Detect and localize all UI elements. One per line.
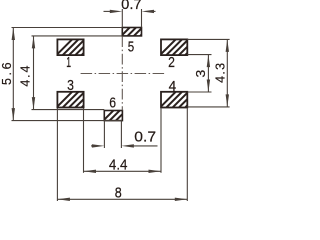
- pad 6: [101, 109, 140, 123]
- dim 4.3 right: dimension line with arrows: [226, 39, 229, 107]
- horizontal centerline: [81, 73, 166, 75]
- svg-text:4.4: 4.4: [109, 157, 128, 173]
- svg-text:4.3: 4.3: [213, 63, 227, 83]
- dim 5.6 left: extension line top (pad5 top edge): [12, 27, 123, 29]
- dim 3 right: extension line bottom (pad4 top edge): [187, 91, 211, 93]
- dim 0.7 bottom: dimension line with outside arrows: [91, 144, 158, 147]
- svg-text:1: 1: [66, 54, 71, 71]
- pad 4: [158, 90, 222, 110]
- dim 4.4 left: dimension line with arrows: [32, 36, 35, 110]
- dim 0.7 top: dimension line with outside arrows: [104, 10, 156, 13]
- pad 4 label "4": [169, 78, 177, 95]
- dim 8 bottom: extension line left (pads 1/3 left edge): [56, 109, 58, 202]
- dim 5.6 left: extension line bottom (pad6 bottom edge): [12, 120, 123, 122]
- dim 5.6 left: dimension line with arrows: [12, 28, 15, 121]
- svg-text:3: 3: [67, 77, 74, 94]
- dim 0.7 top: text: [121, 0, 142, 13]
- dim 0.7 bottom: text: [134, 129, 156, 146]
- pad 3: [54, 90, 118, 110]
- dim 8 bottom: dimension line with arrows: [57, 198, 187, 201]
- dim 3 right: extension line top (pad2 bottom edge): [187, 54, 211, 56]
- dim 8 bottom: extension line right (pads 2/4 right edge): [186, 109, 188, 202]
- svg-text:2: 2: [168, 54, 175, 71]
- pad 6 label "6": [109, 94, 116, 111]
- dim 4.3 right: extension line bottom (pad4 bottom edge): [187, 106, 229, 108]
- svg-text:5: 5: [128, 38, 134, 55]
- svg-text:4: 4: [169, 78, 177, 95]
- pad 2: [158, 37, 222, 57]
- dim 4.3 right: text (rotated): [213, 63, 227, 83]
- pad 1: [54, 37, 118, 57]
- pad 5: [119, 26, 157, 38]
- dim 3 right: text (rotated): [193, 70, 208, 78]
- dim 4.4 bottom: extension line right (pads 2/4 left edge): [160, 109, 162, 173]
- dim 0.7 top: extension lines from pad 5 edges: [122, 9, 141, 28]
- pad 3 label "3": [67, 77, 74, 94]
- dim 4.3 right: extension line top (pad2 top edge): [187, 38, 229, 40]
- dim 4.4 left: text (rotated): [19, 66, 33, 87]
- dim 4.4 bottom: dimension line with arrows: [84, 170, 162, 173]
- svg-text:8: 8: [115, 185, 122, 202]
- dim 5.6 left: text (rotated): [0, 62, 14, 85]
- svg-text:5.6: 5.6: [0, 62, 14, 85]
- svg-text:3: 3: [193, 70, 208, 78]
- dim 8 bottom: text: [115, 185, 122, 202]
- svg-text:4.4: 4.4: [19, 66, 33, 87]
- svg-text:6: 6: [109, 94, 116, 111]
- dim 4.4 bottom: extension line left (pads 1/3 right edge): [83, 109, 85, 173]
- dim 4.4 bottom: text: [109, 157, 128, 173]
- svg-text:0.7: 0.7: [121, 0, 142, 13]
- svg-text:0.7: 0.7: [134, 129, 156, 146]
- dim 3 right: dimension line with arrows: [207, 55, 210, 92]
- pad 1 label "1": [66, 54, 71, 71]
- vertical centerline: [121, 36, 123, 110]
- dim 4.4 left: extension line bottom (pad6 top edge): [32, 109, 105, 111]
- dim 0.7 bottom: extension lines from pad 6 edges: [104, 121, 121, 148]
- dim 4.4 left: extension line top (pad5 bottom edge): [32, 35, 123, 37]
- pad 2 label "2": [168, 54, 175, 71]
- pad 5 label "5": [128, 38, 134, 55]
